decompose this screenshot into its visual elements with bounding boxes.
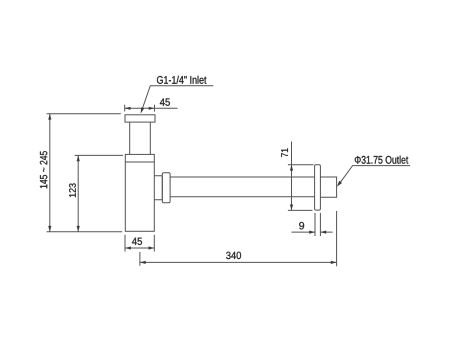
dimension 340 [140, 211, 337, 266]
dimension 145 ~ 245 [47, 114, 123, 232]
trap body [125, 154, 154, 231]
dimension text 9 [299, 222, 304, 229]
inlet flange [125, 115, 155, 122]
dimension 9 [292, 213, 333, 236]
dimension text 45 bottom [132, 238, 142, 245]
dimension text 340 [226, 252, 241, 259]
outlet connector block [154, 176, 162, 200]
leader G1-1/4 inlet [142, 86, 214, 111]
dimension text 145 ~ 245 [40, 151, 47, 188]
leader Phi 31.75 outlet [339, 166, 410, 185]
dimension text 123 [69, 183, 76, 197]
inlet neck [130, 122, 151, 154]
label G1-1/4" Inlet [157, 76, 206, 84]
dimension 45 top [125, 105, 178, 112]
dimension 123 [75, 155, 124, 231]
wall flange [315, 165, 321, 210]
dimension 71 [288, 142, 314, 211]
dimension 45 bottom [125, 235, 154, 252]
label Phi31.75 Outlet [355, 156, 408, 164]
compression nut [162, 173, 170, 203]
horizontal pipe [170, 177, 315, 197]
outlet stub [320, 177, 336, 197]
body collar line [125, 161, 154, 163]
dimension text 45 top [160, 99, 170, 106]
dimension text 71 [281, 148, 288, 157]
